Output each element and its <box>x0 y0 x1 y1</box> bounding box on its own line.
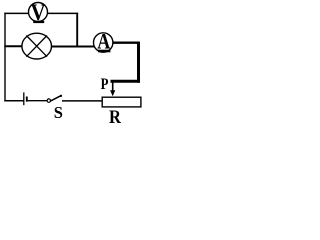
wire top-left horizontal (node to voltmeter) <box>4 12 28 14</box>
wire lamp to ammeter thick <box>52 46 95 48</box>
voltmeter V <box>29 0 48 25</box>
wire voltmeter right horizontal <box>48 12 78 14</box>
wire bend horizontal to slider <box>111 80 141 83</box>
wire ammeter right thick <box>113 42 140 44</box>
svg-text:S: S <box>54 103 63 122</box>
svg-text:V: V <box>31 0 46 25</box>
slider arrow P pointer <box>110 82 115 96</box>
wire bottom left horizontal <box>4 100 23 102</box>
battery cell <box>24 92 27 105</box>
svg-text:R: R <box>109 106 122 127</box>
rheostat R box <box>102 97 141 107</box>
switch S <box>47 95 62 103</box>
wire lamp left thick <box>4 45 22 47</box>
wire switch to rheostat <box>62 100 103 102</box>
wire right vertical thick <box>137 42 140 83</box>
wire left vertical bus <box>4 13 6 102</box>
wire voltmeter branch vertical <box>76 13 78 48</box>
svg-text:A: A <box>97 30 110 54</box>
svg-text:P: P <box>101 76 109 94</box>
wire battery to switch <box>28 100 48 102</box>
ammeter A <box>94 30 113 54</box>
lamp (bulb) <box>22 33 52 59</box>
